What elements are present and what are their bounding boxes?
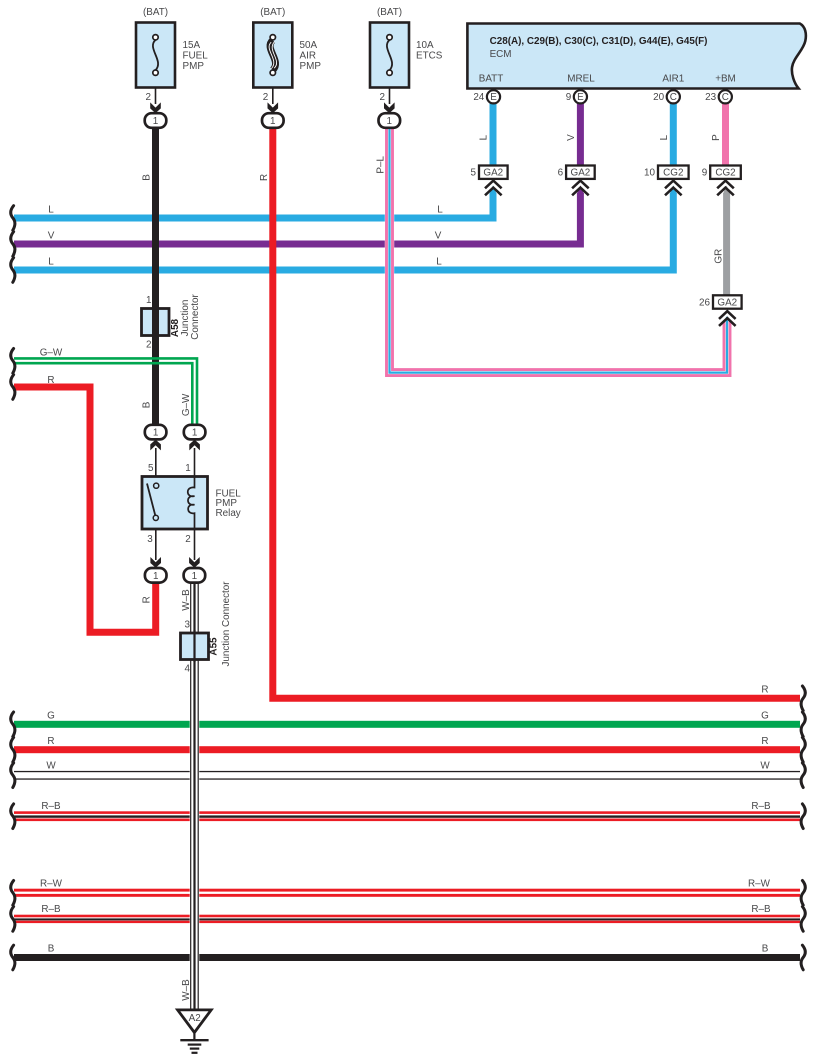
svg-text:R: R — [142, 596, 153, 603]
svg-text:CG2: CG2 — [663, 168, 683, 179]
svg-text:L: L — [659, 134, 670, 140]
svg-text:R: R — [761, 684, 768, 695]
svg-text:GA2: GA2 — [483, 168, 503, 179]
svg-text:ETCS: ETCS — [416, 51, 443, 62]
svg-text:P–L: P–L — [375, 156, 386, 174]
svg-text:15A: 15A — [183, 40, 201, 51]
svg-text:L: L — [479, 134, 490, 140]
svg-text:L: L — [48, 204, 54, 215]
svg-text:5: 5 — [471, 168, 477, 179]
svg-text:BATT: BATT — [479, 74, 504, 85]
svg-text:E: E — [577, 92, 584, 103]
svg-text:20: 20 — [653, 92, 664, 103]
svg-text:9: 9 — [566, 92, 572, 103]
svg-text:2: 2 — [146, 92, 152, 103]
svg-text:FUEL: FUEL — [183, 51, 209, 62]
svg-text:W–B: W–B — [181, 979, 192, 1001]
svg-text:G: G — [761, 711, 769, 722]
svg-text:6: 6 — [558, 168, 564, 179]
svg-text:AIR1: AIR1 — [662, 74, 684, 85]
svg-text:G–W: G–W — [40, 348, 63, 359]
svg-text:GA2: GA2 — [717, 298, 737, 309]
svg-text:3: 3 — [147, 534, 153, 545]
svg-text:P: P — [711, 134, 722, 141]
svg-text:2: 2 — [263, 92, 269, 103]
svg-text:GA2: GA2 — [571, 168, 591, 179]
svg-text:(BAT): (BAT) — [377, 7, 402, 18]
svg-text:R: R — [47, 736, 54, 747]
svg-text:3: 3 — [185, 620, 191, 631]
svg-text:CG2: CG2 — [715, 168, 735, 179]
svg-text:V: V — [566, 134, 577, 141]
svg-text:L: L — [48, 256, 54, 267]
svg-text:2: 2 — [185, 534, 191, 545]
svg-text:R–B: R–B — [751, 904, 771, 915]
svg-text:GR: GR — [713, 249, 724, 264]
svg-text:R–B: R–B — [751, 801, 771, 812]
svg-text:50A: 50A — [300, 40, 318, 51]
svg-text:A55: A55 — [209, 637, 220, 656]
svg-text:26: 26 — [699, 298, 710, 309]
svg-text:(BAT): (BAT) — [260, 7, 285, 18]
svg-text:2: 2 — [380, 92, 386, 103]
svg-text:G: G — [47, 711, 55, 722]
svg-text:L: L — [436, 256, 442, 267]
svg-text:L: L — [437, 204, 443, 215]
svg-text:B: B — [762, 944, 769, 955]
svg-text:4: 4 — [185, 664, 191, 675]
svg-text:R–W: R–W — [40, 878, 63, 889]
svg-text:24: 24 — [473, 92, 484, 103]
svg-text:(BAT): (BAT) — [143, 7, 168, 18]
svg-text:9: 9 — [702, 168, 708, 179]
svg-text:C: C — [722, 92, 729, 103]
svg-text:V: V — [48, 231, 55, 242]
svg-text:Relay: Relay — [216, 508, 241, 519]
svg-text:W–B: W–B — [181, 589, 192, 611]
svg-text:R: R — [47, 375, 54, 386]
svg-text:R–B: R–B — [41, 801, 61, 812]
svg-text:B: B — [48, 944, 55, 955]
svg-text:W: W — [760, 761, 770, 772]
svg-text:5: 5 — [148, 463, 154, 474]
svg-text:C: C — [670, 92, 677, 103]
svg-text:PMP: PMP — [300, 61, 322, 72]
svg-text:Connector: Connector — [190, 294, 201, 340]
svg-text:B: B — [142, 401, 153, 408]
svg-text:ECM: ECM — [490, 49, 512, 60]
svg-text:1: 1 — [146, 295, 152, 306]
svg-text:B: B — [142, 174, 153, 181]
svg-text:10A: 10A — [416, 40, 434, 51]
svg-text:Junction Connector: Junction Connector — [221, 581, 232, 667]
svg-text:MREL: MREL — [567, 74, 595, 85]
svg-text:R: R — [259, 174, 270, 181]
svg-text:R–W: R–W — [748, 878, 771, 889]
svg-text:AIR: AIR — [300, 51, 316, 62]
svg-text:G–W: G–W — [181, 393, 192, 416]
svg-text:PMP: PMP — [183, 61, 205, 72]
svg-text:V: V — [435, 231, 442, 242]
svg-text:2: 2 — [146, 339, 152, 350]
svg-text:A2: A2 — [189, 1013, 201, 1024]
svg-text:C28(A), C29(B), C30(C), C31(D): C28(A), C29(B), C30(C), C31(D), G44(E), … — [490, 36, 708, 47]
svg-text:E: E — [490, 92, 497, 103]
svg-text:23: 23 — [705, 92, 716, 103]
svg-text:10: 10 — [644, 168, 655, 179]
svg-text:R: R — [761, 736, 768, 747]
svg-text:+BM: +BM — [715, 74, 736, 85]
svg-text:1: 1 — [185, 463, 191, 474]
svg-text:W: W — [46, 761, 56, 772]
svg-text:R–B: R–B — [41, 904, 61, 915]
